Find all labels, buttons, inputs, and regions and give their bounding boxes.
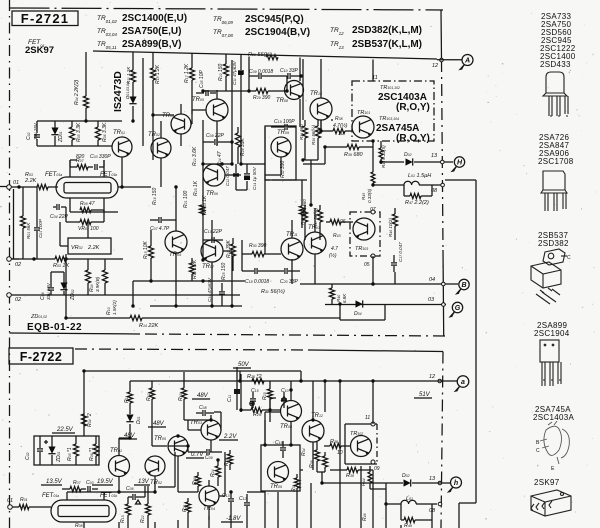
- svg-text:13: 13: [429, 476, 436, 482]
- svg-text:R31 56(½): R31 56(½): [261, 288, 285, 295]
- svg-text:19.5V: 19.5V: [97, 479, 114, 485]
- svg-text:R21 100: R21 100: [183, 191, 189, 208]
- svg-text:R40: R40: [336, 295, 341, 302]
- svg-text:13.5V: 13.5V: [46, 479, 63, 485]
- svg-text:2.2K: 2.2K: [87, 245, 100, 251]
- svg-text:C10 33P: C10 33P: [280, 68, 298, 74]
- svg-text:0.7V: 0.7V: [191, 452, 204, 458]
- svg-text:R09 47: R09 47: [80, 201, 95, 207]
- svg-text:2SA750(E,U): 2SA750(E,U): [122, 26, 181, 37]
- svg-text:R05 *1: R05 *1: [67, 447, 73, 461]
- svg-text:R08: R08: [75, 523, 83, 528]
- svg-text:01: 01: [7, 498, 13, 504]
- svg-text:05: 05: [364, 262, 370, 268]
- svg-text:2SC1403A: 2SC1403A: [533, 413, 574, 422]
- svg-text:R32 390: R32 390: [280, 161, 286, 178]
- svg-text:22.5V: 22.5V: [56, 427, 74, 433]
- svg-text:R25 150: R25 150: [221, 263, 227, 280]
- svg-text:2SC1708: 2SC1708: [538, 157, 574, 166]
- svg-text:R39 680: R39 680: [344, 152, 364, 158]
- svg-text:2SD382(K,L,M): 2SD382(K,L,M): [352, 25, 422, 36]
- svg-text:R44 0.33(5): R44 0.33(5): [381, 145, 386, 168]
- svg-text:13V: 13V: [138, 479, 150, 485]
- svg-text:33µ 25V: 33µ 25V: [46, 282, 51, 300]
- svg-text:48V: 48V: [153, 421, 165, 427]
- svg-text:C01 100P: C01 100P: [38, 219, 43, 238]
- svg-text:10: 10: [338, 131, 344, 137]
- svg-text:C14 1µ 50V: C14 1µ 50V: [252, 166, 257, 190]
- svg-text:R49: R49: [404, 523, 412, 528]
- svg-text:4.7: 4.7: [331, 246, 338, 252]
- svg-text:R03 1K: R03 1K: [53, 263, 69, 269]
- svg-text:R37 56(½): R37 56(½): [312, 207, 318, 228]
- svg-text:R22 3.6K: R22 3.6K: [192, 146, 198, 166]
- svg-text:R46 10(2): R46 10(2): [388, 218, 393, 237]
- svg-text:a: a: [461, 379, 465, 386]
- svg-text:C03 330P: C03 330P: [90, 154, 111, 160]
- svg-text:2.2V: 2.2V: [223, 434, 237, 440]
- svg-text:12: 12: [429, 374, 435, 380]
- svg-text:01: 01: [13, 180, 19, 186]
- svg-text:(R,O,Y): (R,O,Y): [396, 102, 430, 113]
- svg-text:G: G: [455, 305, 461, 312]
- svg-text:R47 2.2(2): R47 2.2(2): [405, 200, 429, 206]
- svg-text:6.8K: 6.8K: [342, 293, 347, 303]
- svg-text:2SK97: 2SK97: [534, 478, 560, 487]
- svg-text:R28 *2: R28 *2: [247, 374, 262, 380]
- svg-text:33µ 25V: 33µ 25V: [33, 122, 38, 140]
- svg-text:C: C: [536, 448, 540, 454]
- svg-text:F-2721: F-2721: [21, 11, 69, 26]
- svg-text:48V: 48V: [197, 393, 209, 399]
- svg-text:(½): (½): [329, 252, 337, 259]
- svg-text:04: 04: [429, 277, 435, 283]
- svg-text:h: h: [454, 480, 458, 487]
- svg-text:R01 56K: R01 56K: [26, 222, 31, 239]
- svg-text:R18 1.2K: R18 1.2K: [155, 64, 161, 84]
- svg-text:3.9K(B): 3.9K(B): [95, 276, 100, 292]
- svg-text:(R,O,Y): (R,O,Y): [396, 133, 430, 144]
- svg-text:C12 0.047: C12 0.047: [225, 166, 230, 186]
- svg-text:2SC1400(E,U): 2SC1400(E,U): [122, 13, 187, 24]
- svg-text:R26 39K: R26 39K: [240, 138, 246, 156]
- svg-text:IS2473D: IS2473D: [112, 71, 124, 112]
- svg-text:-1.8V: -1.8V: [226, 516, 241, 522]
- svg-text:R45: R45: [361, 193, 366, 200]
- svg-text:2SB537(K,L,M): 2SB537(K,L,M): [352, 39, 422, 50]
- svg-text:C09 22P: C09 22P: [206, 133, 224, 139]
- svg-text:C20 33P: C20 33P: [280, 279, 298, 285]
- svg-text:13: 13: [431, 153, 438, 159]
- svg-text:2SD382: 2SD382: [538, 239, 569, 248]
- svg-text:R05 3.3K: R05 3.3K: [76, 122, 82, 142]
- svg-text:2SK97: 2SK97: [25, 45, 54, 56]
- svg-text:R06 3.3K: R06 3.3K: [102, 122, 108, 142]
- svg-text:2SC1904: 2SC1904: [534, 329, 570, 338]
- svg-text:C17 0.047: C17 0.047: [398, 242, 403, 262]
- svg-text:C13 22P: C13 22P: [204, 229, 222, 235]
- svg-text:R30 390: R30 390: [249, 243, 266, 249]
- svg-text:EQB-01-22: EQB-01-22: [27, 322, 82, 333]
- svg-text:C05 10P: C05 10P: [199, 70, 205, 88]
- svg-text:R16 150: R16 150: [152, 188, 158, 205]
- svg-text:11: 11: [365, 415, 370, 421]
- svg-text:C: C: [567, 255, 571, 261]
- svg-text:50V: 50V: [238, 362, 250, 368]
- svg-text:R15 10K: R15 10K: [143, 241, 149, 259]
- svg-text:F-2722: F-2722: [20, 350, 63, 364]
- svg-text:1.5K(2): 1.5K(2): [112, 300, 117, 315]
- svg-text:R14 22K: R14 22K: [139, 323, 159, 329]
- svg-text:A: A: [464, 58, 470, 65]
- svg-text:4.7(½): 4.7(½): [333, 122, 348, 129]
- svg-text:R23 1K: R23 1K: [193, 180, 199, 196]
- svg-text:R29 390: R29 390: [253, 95, 270, 101]
- svg-text:12: 12: [432, 63, 438, 69]
- svg-text:2SC945(P,Q): 2SC945(P,Q): [245, 14, 304, 25]
- svg-text:2SD433: 2SD433: [540, 60, 571, 69]
- svg-text:2SC1904(B,V): 2SC1904(B,V): [245, 27, 310, 38]
- svg-text:02: 02: [15, 262, 21, 268]
- svg-text:C11 47µ63V: C11 47µ63V: [232, 60, 237, 85]
- svg-text:2SA899(B,V): 2SA899(B,V): [122, 39, 181, 50]
- svg-text:2.2K: 2.2K: [24, 178, 37, 184]
- svg-text:B: B: [461, 282, 466, 289]
- svg-text:03: 03: [428, 297, 435, 303]
- svg-text:09: 09: [374, 466, 380, 472]
- svg-text:0.33(5): 0.33(5): [367, 188, 372, 203]
- svg-text:C07 4.7P: C07 4.7P: [150, 226, 170, 232]
- svg-text:51V: 51V: [419, 392, 431, 398]
- svg-text:02: 02: [15, 297, 21, 303]
- svg-text:820: 820: [76, 154, 85, 160]
